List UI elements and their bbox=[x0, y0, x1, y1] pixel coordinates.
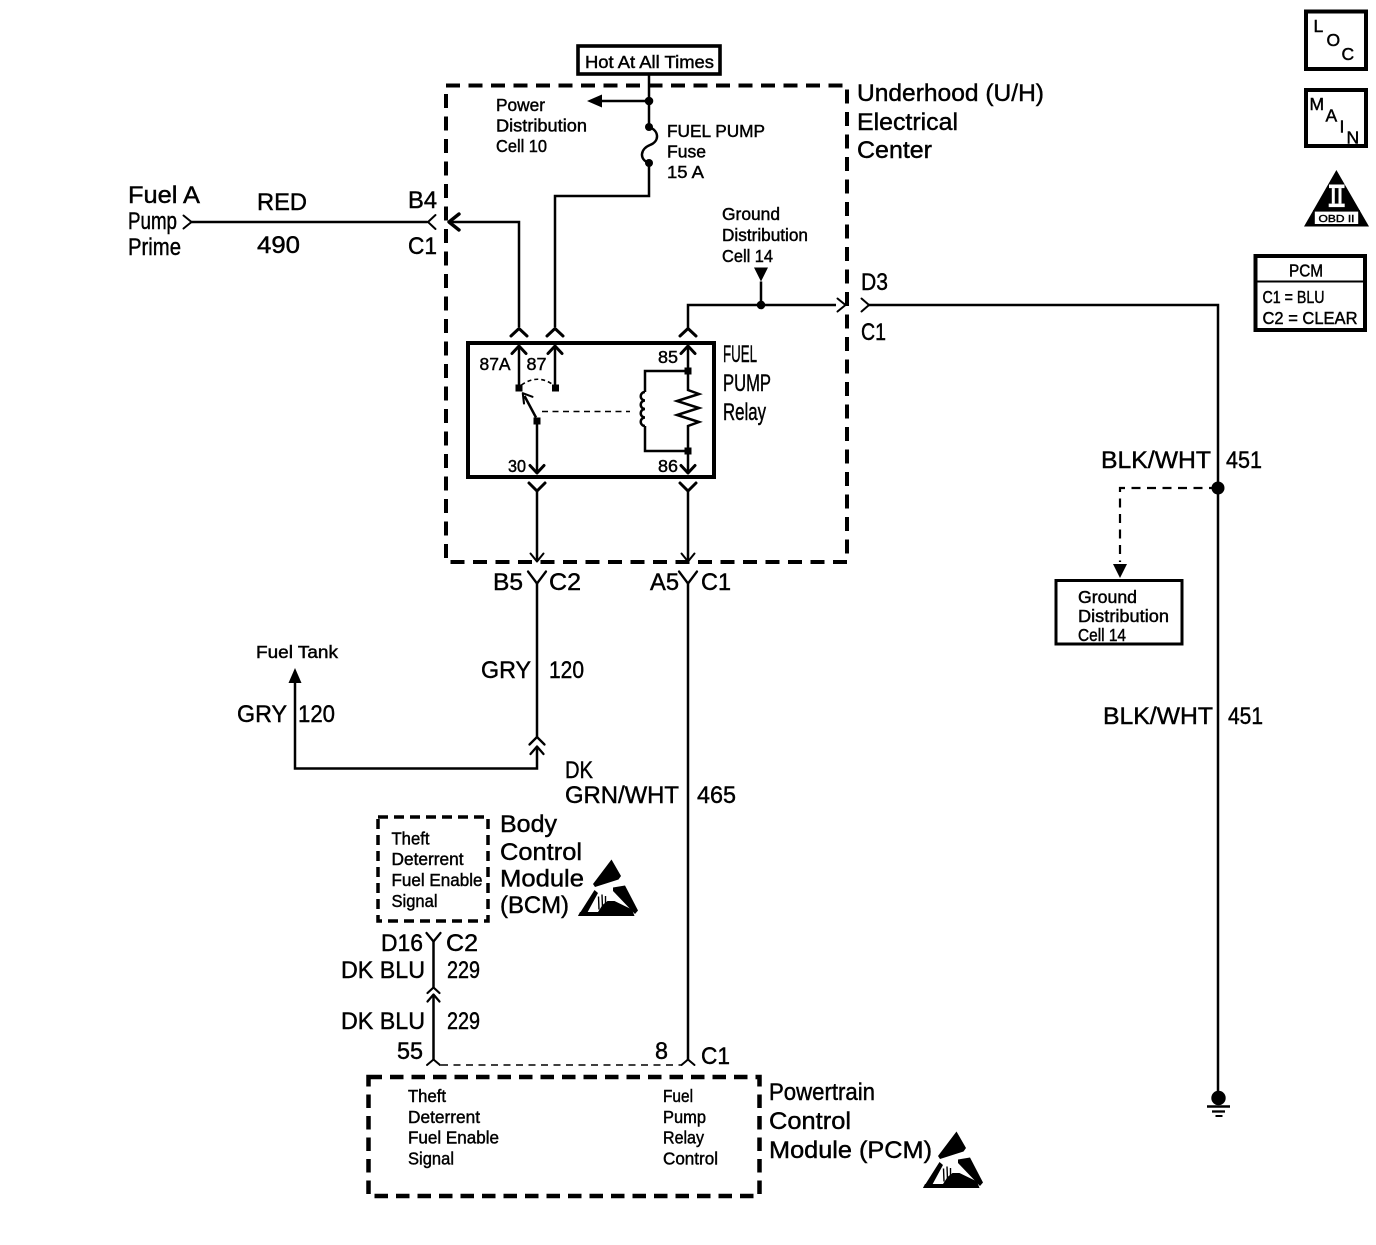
wire from B4 to relay pin 87A bbox=[449, 222, 519, 327]
svg-text:30: 30 bbox=[508, 456, 526, 476]
svg-text:Cell 14: Cell 14 bbox=[722, 246, 773, 266]
ground symbol G103 bbox=[1207, 1091, 1230, 1116]
svg-text:Distribution: Distribution bbox=[1078, 606, 1169, 626]
Hot At All Times power source box bbox=[578, 46, 720, 74]
relay terminal 30 bbox=[534, 418, 541, 425]
relay internal resistor bbox=[677, 368, 699, 455]
svg-text:451: 451 bbox=[1228, 703, 1263, 730]
dashed branch to Ground Distribution Cell 14 box bbox=[1113, 488, 1218, 578]
svg-text:OBD II: OBD II bbox=[1319, 213, 1355, 225]
svg-text:Hot At All Times: Hot At All Times bbox=[585, 52, 714, 72]
Ground Distribution Cell 14 box bbox=[1056, 581, 1182, 646]
PCM dashed box bbox=[369, 1077, 760, 1196]
svg-text:Pump: Pump bbox=[663, 1107, 706, 1127]
wire pin30 to UEC boundary B5 bbox=[536, 491, 539, 561]
svg-text:Control: Control bbox=[500, 839, 582, 866]
svg-text:Relay: Relay bbox=[723, 399, 767, 426]
svg-text:GRN/WHT: GRN/WHT bbox=[565, 782, 679, 809]
svg-text:Module (PCM): Module (PCM) bbox=[769, 1137, 932, 1164]
svg-text:C1 = BLU: C1 = BLU bbox=[1263, 287, 1325, 307]
MAIN legend box bbox=[1306, 90, 1366, 148]
ESD symbol (PCM) bbox=[923, 1132, 983, 1189]
svg-text:Ground: Ground bbox=[1078, 587, 1137, 607]
svg-text:A: A bbox=[1326, 106, 1338, 126]
svg-text:GRY: GRY bbox=[481, 657, 531, 684]
svg-text:86: 86 bbox=[658, 456, 678, 476]
svg-text:120: 120 bbox=[549, 657, 584, 684]
svg-text:DK: DK bbox=[565, 757, 594, 784]
svg-text:229: 229 bbox=[447, 1008, 480, 1035]
wire DK GRN/WHT 465 labels bbox=[565, 757, 736, 809]
wire to Fuel Tank bbox=[295, 683, 537, 769]
svg-text:Distribution: Distribution bbox=[496, 116, 587, 136]
svg-text:Underhood (U/H): Underhood (U/H) bbox=[857, 80, 1044, 107]
connector B4 / C1 at UEC boundary bbox=[428, 214, 459, 230]
label: Underhood (U/H) Electrical Center bbox=[857, 80, 1044, 164]
svg-text:N: N bbox=[1347, 128, 1360, 148]
svg-text:RED: RED bbox=[257, 189, 307, 216]
svg-text:C2 = CLEAR: C2 = CLEAR bbox=[1263, 308, 1358, 328]
svg-text:GRY: GRY bbox=[237, 701, 287, 728]
svg-text:Fuel Tank: Fuel Tank bbox=[256, 642, 338, 662]
svg-text:C1: C1 bbox=[701, 569, 731, 596]
svg-text:Module: Module bbox=[500, 866, 584, 893]
svg-text:Theft: Theft bbox=[408, 1086, 446, 1106]
connector chevron at Fuel Pump Prime bbox=[184, 216, 192, 229]
pin arrows inside relay top bbox=[512, 346, 695, 388]
label: Power Distribution Cell 10 bbox=[496, 95, 587, 156]
connector B5 / C2 below UEC bbox=[493, 569, 581, 596]
svg-text:Deterrent: Deterrent bbox=[408, 1107, 480, 1127]
relay coil bbox=[641, 371, 688, 451]
Underhood Electrical Center dashed box bbox=[446, 86, 847, 563]
svg-text:465: 465 bbox=[697, 782, 736, 809]
svg-text:BLK/WHT: BLK/WHT bbox=[1103, 703, 1213, 730]
ESD symbol (BCM) bbox=[578, 860, 638, 917]
svg-text:C2: C2 bbox=[446, 930, 478, 957]
wire GRY 120 from B5 bbox=[536, 584, 539, 738]
svg-text:Fuel Enable: Fuel Enable bbox=[392, 870, 483, 890]
svg-text:55: 55 bbox=[397, 1038, 423, 1065]
svg-text:Body: Body bbox=[500, 811, 558, 838]
label: Body Control Module (BCM) bbox=[500, 811, 584, 919]
svg-text:DK BLU: DK BLU bbox=[341, 957, 425, 984]
BCM dashed box: Theft Deterrent Fuel Enable Signal bbox=[378, 817, 488, 921]
relay terminal 87 bbox=[552, 385, 559, 392]
svg-text:8: 8 bbox=[655, 1038, 668, 1065]
svg-text:Signal: Signal bbox=[408, 1149, 454, 1169]
svg-text:Theft: Theft bbox=[392, 829, 430, 849]
connector A5 / C1 below UEC bbox=[650, 569, 731, 596]
svg-text:PCM: PCM bbox=[1289, 261, 1323, 281]
svg-text:451: 451 bbox=[1226, 447, 1262, 474]
wire RED 490 bbox=[192, 221, 428, 224]
svg-text:Control: Control bbox=[769, 1108, 851, 1135]
connector D16 / C2 below BCM bbox=[381, 930, 478, 957]
svg-text:Fuel Enable: Fuel Enable bbox=[408, 1128, 499, 1148]
svg-text:FUEL: FUEL bbox=[723, 341, 757, 368]
svg-text:229: 229 bbox=[447, 957, 480, 984]
wire pin86 to UEC boundary A5 bbox=[687, 491, 690, 561]
node: junction dot at fuse feed bbox=[645, 97, 654, 106]
label: Fuel Pump Relay Control bbox=[663, 1086, 718, 1169]
relay terminal 87A bbox=[516, 385, 523, 392]
svg-text:L: L bbox=[1314, 16, 1324, 36]
svg-text:490: 490 bbox=[257, 232, 300, 259]
svg-text:D3: D3 bbox=[861, 269, 888, 296]
PCM connector color legend bbox=[1256, 256, 1366, 330]
svg-text:D16: D16 bbox=[381, 930, 423, 957]
wire from fuse to relay pin 87 bbox=[555, 163, 649, 327]
svg-text:Powertrain: Powertrain bbox=[769, 1079, 875, 1106]
connector feet at PCM C1 bbox=[427, 1060, 695, 1066]
svg-text:Prime: Prime bbox=[128, 234, 181, 261]
node: junction dot on BLK/WHT wire bbox=[1212, 482, 1225, 495]
svg-text:Electrical: Electrical bbox=[857, 109, 958, 136]
svg-text:A5: A5 bbox=[650, 569, 679, 596]
connector chevrons entering relay (87A, 87, 85) bbox=[511, 329, 696, 337]
fuse: FUEL PUMP Fuse 15 A bbox=[642, 101, 657, 167]
svg-text:C2: C2 bbox=[549, 569, 581, 596]
label: Fuel A Pump Prime bbox=[128, 182, 201, 261]
svg-text:B4: B4 bbox=[408, 187, 437, 214]
svg-text:120: 120 bbox=[298, 701, 335, 728]
junction dot to Ground Distribution Cell 14 (top) bbox=[754, 268, 768, 310]
svg-text:Fuel A: Fuel A bbox=[128, 182, 201, 209]
svg-text:FUEL PUMP: FUEL PUMP bbox=[667, 121, 765, 141]
svg-text:Signal: Signal bbox=[392, 891, 438, 911]
wire DK BLU 229 lower to PCM pin 55 bbox=[432, 995, 435, 1060]
svg-text:DK BLU: DK BLU bbox=[341, 1008, 425, 1035]
svg-text:Cell 10: Cell 10 bbox=[496, 136, 547, 156]
svg-text:B5: B5 bbox=[493, 569, 523, 596]
svg-text:(BCM): (BCM) bbox=[500, 892, 569, 919]
svg-text:Pump: Pump bbox=[128, 208, 177, 235]
relay pin 86 lead bbox=[687, 451, 690, 472]
svg-text:15 A: 15 A bbox=[667, 162, 704, 182]
connector chevrons below relay bbox=[529, 483, 696, 491]
svg-text:C1: C1 bbox=[861, 319, 886, 346]
svg-text:Relay: Relay bbox=[663, 1128, 704, 1148]
svg-text:Power: Power bbox=[496, 95, 545, 115]
svg-text:I: I bbox=[1340, 117, 1345, 137]
svg-text:O: O bbox=[1327, 30, 1341, 50]
relay K: FUEL PUMP Relay box bbox=[468, 343, 714, 477]
svg-text:Control: Control bbox=[663, 1149, 718, 1169]
OBD II symbol bbox=[1304, 170, 1369, 227]
inline connector on GRY wire bbox=[530, 737, 545, 754]
svg-text:85: 85 bbox=[658, 347, 678, 367]
label: Powertrain Control Module (PCM) bbox=[769, 1079, 932, 1164]
dashed arc between 87A and 87 bbox=[522, 379, 554, 385]
wire DK GRN/WHT 465 from A5 to PCM pin 8 bbox=[687, 584, 690, 1060]
svg-text:Center: Center bbox=[857, 137, 932, 164]
svg-text:Distribution: Distribution bbox=[722, 225, 808, 245]
wire from Hot At All Times down into UEC bbox=[648, 74, 651, 101]
svg-text:C1: C1 bbox=[701, 1043, 730, 1070]
wire from relay pin 85 to D3 bbox=[688, 305, 836, 328]
label: Theft Deterrent Fuel Enable Signal (PCM) bbox=[408, 1086, 499, 1169]
relay switch arm bbox=[523, 393, 536, 417]
svg-text:M: M bbox=[1310, 94, 1325, 114]
wire arrow to Power Distribution Cell 10 bbox=[587, 95, 649, 108]
svg-text:87: 87 bbox=[527, 354, 547, 374]
connector D3 / C1 at UEC right boundary bbox=[838, 269, 889, 346]
wire BLK/WHT 451 to ground bbox=[869, 305, 1218, 1091]
svg-text:C: C bbox=[1342, 44, 1355, 64]
svg-text:87A: 87A bbox=[480, 354, 511, 374]
arrow to Fuel Tank bbox=[289, 668, 302, 683]
svg-text:C1: C1 bbox=[408, 233, 437, 260]
svg-text:Ground: Ground bbox=[722, 204, 780, 224]
LOC legend box bbox=[1306, 12, 1366, 70]
svg-text:PUMP: PUMP bbox=[723, 370, 771, 397]
wire DK BLU 229 upper bbox=[432, 942, 435, 988]
svg-text:Fuse: Fuse bbox=[667, 142, 706, 162]
svg-text:Deterrent: Deterrent bbox=[392, 849, 464, 869]
dashed actuation link bbox=[542, 411, 630, 413]
svg-text:BLK/WHT: BLK/WHT bbox=[1101, 447, 1211, 474]
dashed connector face C1 bbox=[441, 1064, 681, 1066]
inline connector on DK BLU wire bbox=[428, 988, 440, 1002]
svg-text:Cell 14: Cell 14 bbox=[1078, 625, 1126, 645]
svg-text:Fuel: Fuel bbox=[663, 1086, 693, 1106]
